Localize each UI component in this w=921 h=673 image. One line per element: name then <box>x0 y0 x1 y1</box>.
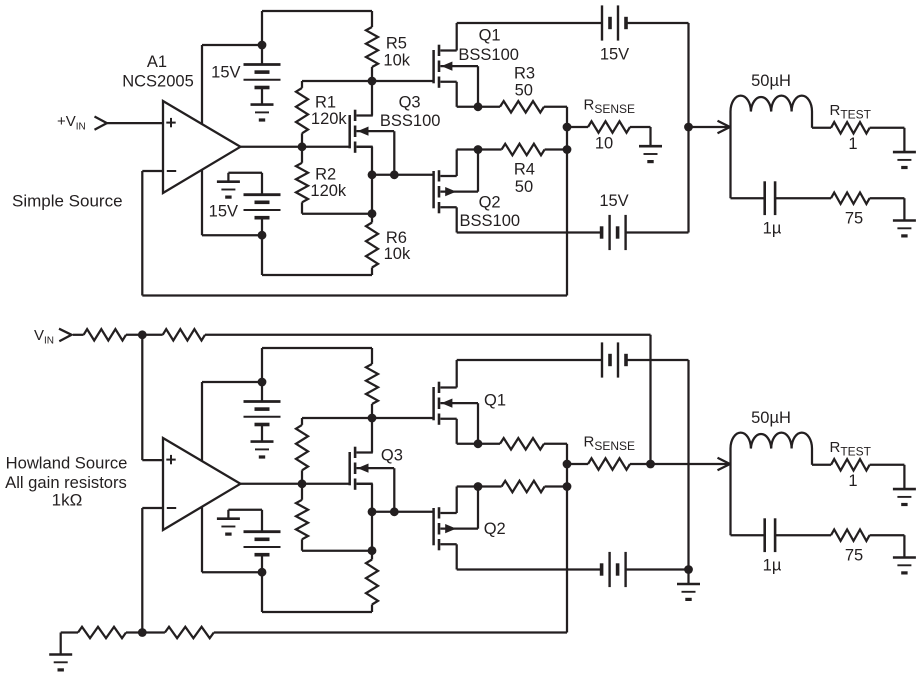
svg-text:10k: 10k <box>384 245 411 263</box>
svg-text:50µH: 50µH <box>751 409 791 427</box>
svg-text:NCS2005: NCS2005 <box>122 73 194 91</box>
svg-text:R5: R5 <box>386 35 407 53</box>
svg-text:10: 10 <box>595 135 613 153</box>
svg-text:Q2: Q2 <box>479 193 501 211</box>
svg-text:Q1: Q1 <box>484 392 506 410</box>
svg-text:Q2: Q2 <box>484 520 506 538</box>
svg-text:50: 50 <box>515 82 533 100</box>
svg-text:R1: R1 <box>315 93 336 111</box>
svg-text:Q1: Q1 <box>479 27 501 45</box>
svg-text:1µ: 1µ <box>763 557 782 575</box>
svg-text:R3: R3 <box>514 65 535 83</box>
svg-text:Howland Source: Howland Source <box>6 454 128 473</box>
svg-text:1: 1 <box>848 135 857 153</box>
svg-text:BSS100: BSS100 <box>460 212 521 230</box>
svg-text:R4: R4 <box>514 160 535 178</box>
svg-text:Simple Source: Simple Source <box>12 192 123 211</box>
svg-text:Q3: Q3 <box>399 94 421 112</box>
svg-text:15V: 15V <box>209 203 238 221</box>
svg-text:50: 50 <box>515 178 533 196</box>
svg-text:75: 75 <box>845 547 863 565</box>
svg-text:BSS100: BSS100 <box>458 46 519 64</box>
svg-text:Q3: Q3 <box>381 447 403 465</box>
svg-text:R6: R6 <box>386 229 407 247</box>
svg-text:BSS100: BSS100 <box>380 112 441 130</box>
svg-text:15V: 15V <box>600 46 629 64</box>
svg-text:1µ: 1µ <box>763 220 782 238</box>
svg-text:R2: R2 <box>315 166 336 184</box>
svg-text:15V: 15V <box>599 192 628 210</box>
svg-text:75: 75 <box>845 210 863 228</box>
svg-text:15V: 15V <box>211 64 240 82</box>
svg-text:A1: A1 <box>147 53 167 71</box>
svg-text:120k: 120k <box>311 110 348 128</box>
svg-text:1: 1 <box>848 472 857 490</box>
svg-text:10k: 10k <box>383 52 410 70</box>
svg-text:120k: 120k <box>310 182 347 200</box>
svg-text:All gain resistors: All gain resistors <box>5 473 127 492</box>
svg-text:50µH: 50µH <box>751 72 791 90</box>
svg-text:1kΩ: 1kΩ <box>52 491 83 510</box>
